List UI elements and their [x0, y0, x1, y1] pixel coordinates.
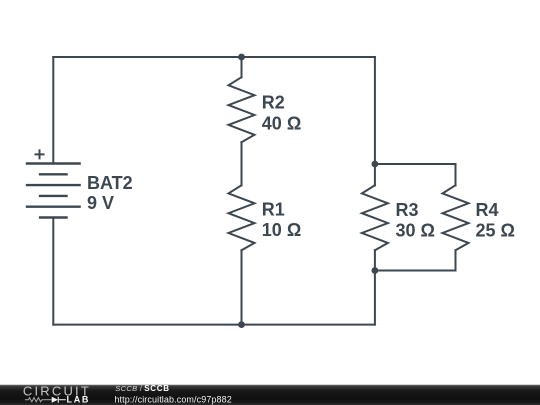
resistor R4	[443, 185, 469, 250]
battery BAT2 plates	[26, 164, 81, 218]
svg-text:40 Ω: 40 Ω	[262, 113, 301, 133]
wire left: battery - terminal to bottom rail	[52, 218, 54, 325]
node bottom-mid junction dot	[238, 321, 245, 328]
svg-text:30 Ω: 30 Ω	[396, 220, 435, 240]
wire R4 branch bottom	[375, 250, 456, 270]
wire middle branch: top rail to R2	[241, 57, 243, 77]
svg-text:R1: R1	[262, 199, 285, 219]
svg-text:http://circuitlab.com/c97p882: http://circuitlab.com/c97p882	[114, 395, 231, 405]
wire middle branch: R2 to R1	[241, 142, 243, 185]
svg-text:10 Ω: 10 Ω	[262, 220, 301, 240]
svg-text:BAT2: BAT2	[87, 173, 133, 193]
footer bar	[0, 385, 540, 405]
svg-text:25 Ω: 25 Ω	[476, 220, 515, 240]
wire middle branch: R1 to bottom rail	[241, 250, 243, 324]
wire right branch: node A to R3	[374, 164, 376, 185]
wire right branch: R3 to node B	[374, 250, 376, 270]
svg-text:R4: R4	[476, 200, 499, 220]
svg-text:R2: R2	[262, 93, 285, 113]
wire right branch: top rail to node A	[374, 57, 376, 164]
logo diode	[46, 399, 52, 401]
logo resistor zigzag	[25, 398, 46, 402]
node A junction dot	[372, 161, 379, 168]
svg-text:LAB: LAB	[67, 395, 91, 405]
resistor R1	[229, 185, 255, 250]
wire R4 branch top	[375, 164, 456, 185]
wire top rail	[53, 56, 375, 58]
svg-text:9 V: 9 V	[87, 193, 114, 213]
resistor R2	[229, 77, 255, 142]
wire bottom rail	[53, 324, 375, 326]
svg-text:SCCB / SCCB: SCCB / SCCB	[115, 384, 169, 393]
node top-mid junction dot	[238, 54, 245, 61]
node B junction dot	[372, 267, 379, 274]
svg-text:R3: R3	[396, 200, 419, 220]
resistor R3	[362, 185, 388, 250]
wire right branch: node B to bottom rail	[374, 271, 376, 325]
battery + polarity mark	[35, 149, 45, 159]
wire left: top rail to battery + terminal	[52, 57, 54, 164]
